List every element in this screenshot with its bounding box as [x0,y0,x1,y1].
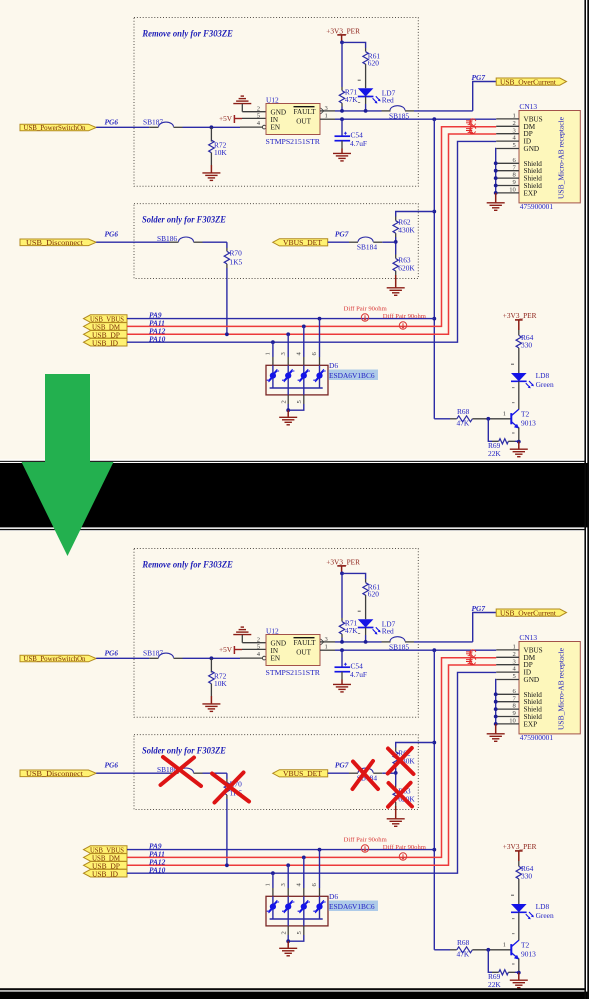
right frame line [584,0,586,999]
green arrow [22,374,114,556]
separator thin black line top [0,461,586,462]
red X over SB184 [353,761,379,789]
red X over R63 [388,783,412,807]
bottom frame line [0,988,586,990]
separator black bar [0,463,589,527]
panel 2 (bottom schematic, duplicate) [0,531,584,991]
red X over R62 [388,748,414,774]
panel 1 (top schematic) [0,0,584,460]
red X over R70 [212,773,249,803]
white gap strips around separator [0,459,584,460]
right edge black [587,0,589,999]
red X over SB186 [161,757,202,786]
separator thin black line bottom [0,529,586,530]
bottom black bar [0,992,589,999]
